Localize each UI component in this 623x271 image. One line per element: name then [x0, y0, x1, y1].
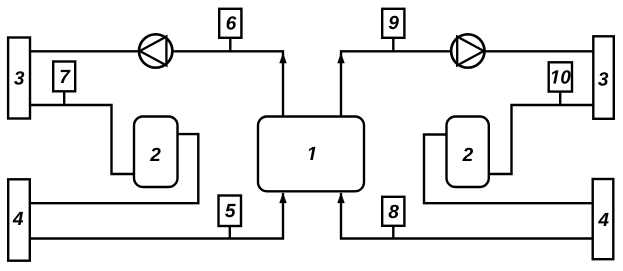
sensor box 8: [382, 197, 404, 226]
pump right (circle with right-pointing triangle): [451, 34, 484, 67]
label 6: [227, 16, 237, 29]
label 5: [225, 204, 236, 217]
unit 3 right rectangle: [593, 36, 614, 119]
label 4 left: [13, 212, 24, 225]
label 3 left: [14, 71, 24, 84]
unit 4 left rectangle: [8, 179, 30, 260]
label 2 right: [462, 148, 473, 161]
wire bottom bus left from unit 4 to riser into unit 1: [30, 193, 283, 239]
arrowhead up into unit 1 bottom left: [279, 193, 286, 204]
sensor box 5: [219, 196, 242, 227]
sensor box 7: [53, 62, 75, 92]
wire stub sensor 10: [559, 92, 561, 106]
wire stub sensor 7: [63, 92, 65, 106]
label 9: [389, 16, 399, 29]
arrowhead up into unit 1 bottom right: [337, 193, 344, 204]
tank 2 right rounded rectangle: [447, 117, 489, 188]
arrowhead up into top bus right: [337, 53, 344, 64]
wire tank 2 left outlet step down to unit 4 top line: [30, 134, 198, 203]
unit 1 central rounded rectangle: [258, 117, 364, 192]
unit 4 right rectangle: [593, 179, 614, 259]
unit 3 left rectangle: [8, 38, 30, 119]
wire bottom bus right from unit 4 right to riser into unit 1: [341, 193, 593, 239]
sensor box 6: [219, 9, 241, 38]
wire tank 2 right outlet to unit 3 right lower line: [489, 105, 593, 174]
wire stub sensor 5: [229, 226, 231, 239]
tank 2 left rounded rectangle: [134, 117, 178, 188]
wire stub sensor 9: [392, 38, 394, 52]
label 7: [61, 70, 71, 83]
label 1: [309, 147, 316, 160]
label 2 left: [150, 148, 161, 161]
pump left (circle with left-pointing triangle): [139, 34, 172, 67]
arrowhead up into top bus left: [279, 53, 286, 64]
label 8: [389, 205, 399, 218]
wire unit 3 lower line down to tank 2 left inlet: [30, 105, 134, 174]
wire tank 2 right inlet step down to unit 4 right top line: [424, 135, 593, 204]
wire stub sensor 8: [392, 226, 394, 239]
sensor box 10: [549, 62, 572, 91]
wire top bus left from unit 3 to riser into unit 1: [30, 51, 283, 116]
label 3 right: [598, 72, 608, 85]
label 10: [552, 70, 571, 83]
sensor box 9: [382, 9, 404, 38]
wire stub sensor 6: [229, 38, 231, 52]
wire top bus right from riser to unit 3 right: [341, 51, 593, 116]
label 4 right: [598, 213, 609, 226]
